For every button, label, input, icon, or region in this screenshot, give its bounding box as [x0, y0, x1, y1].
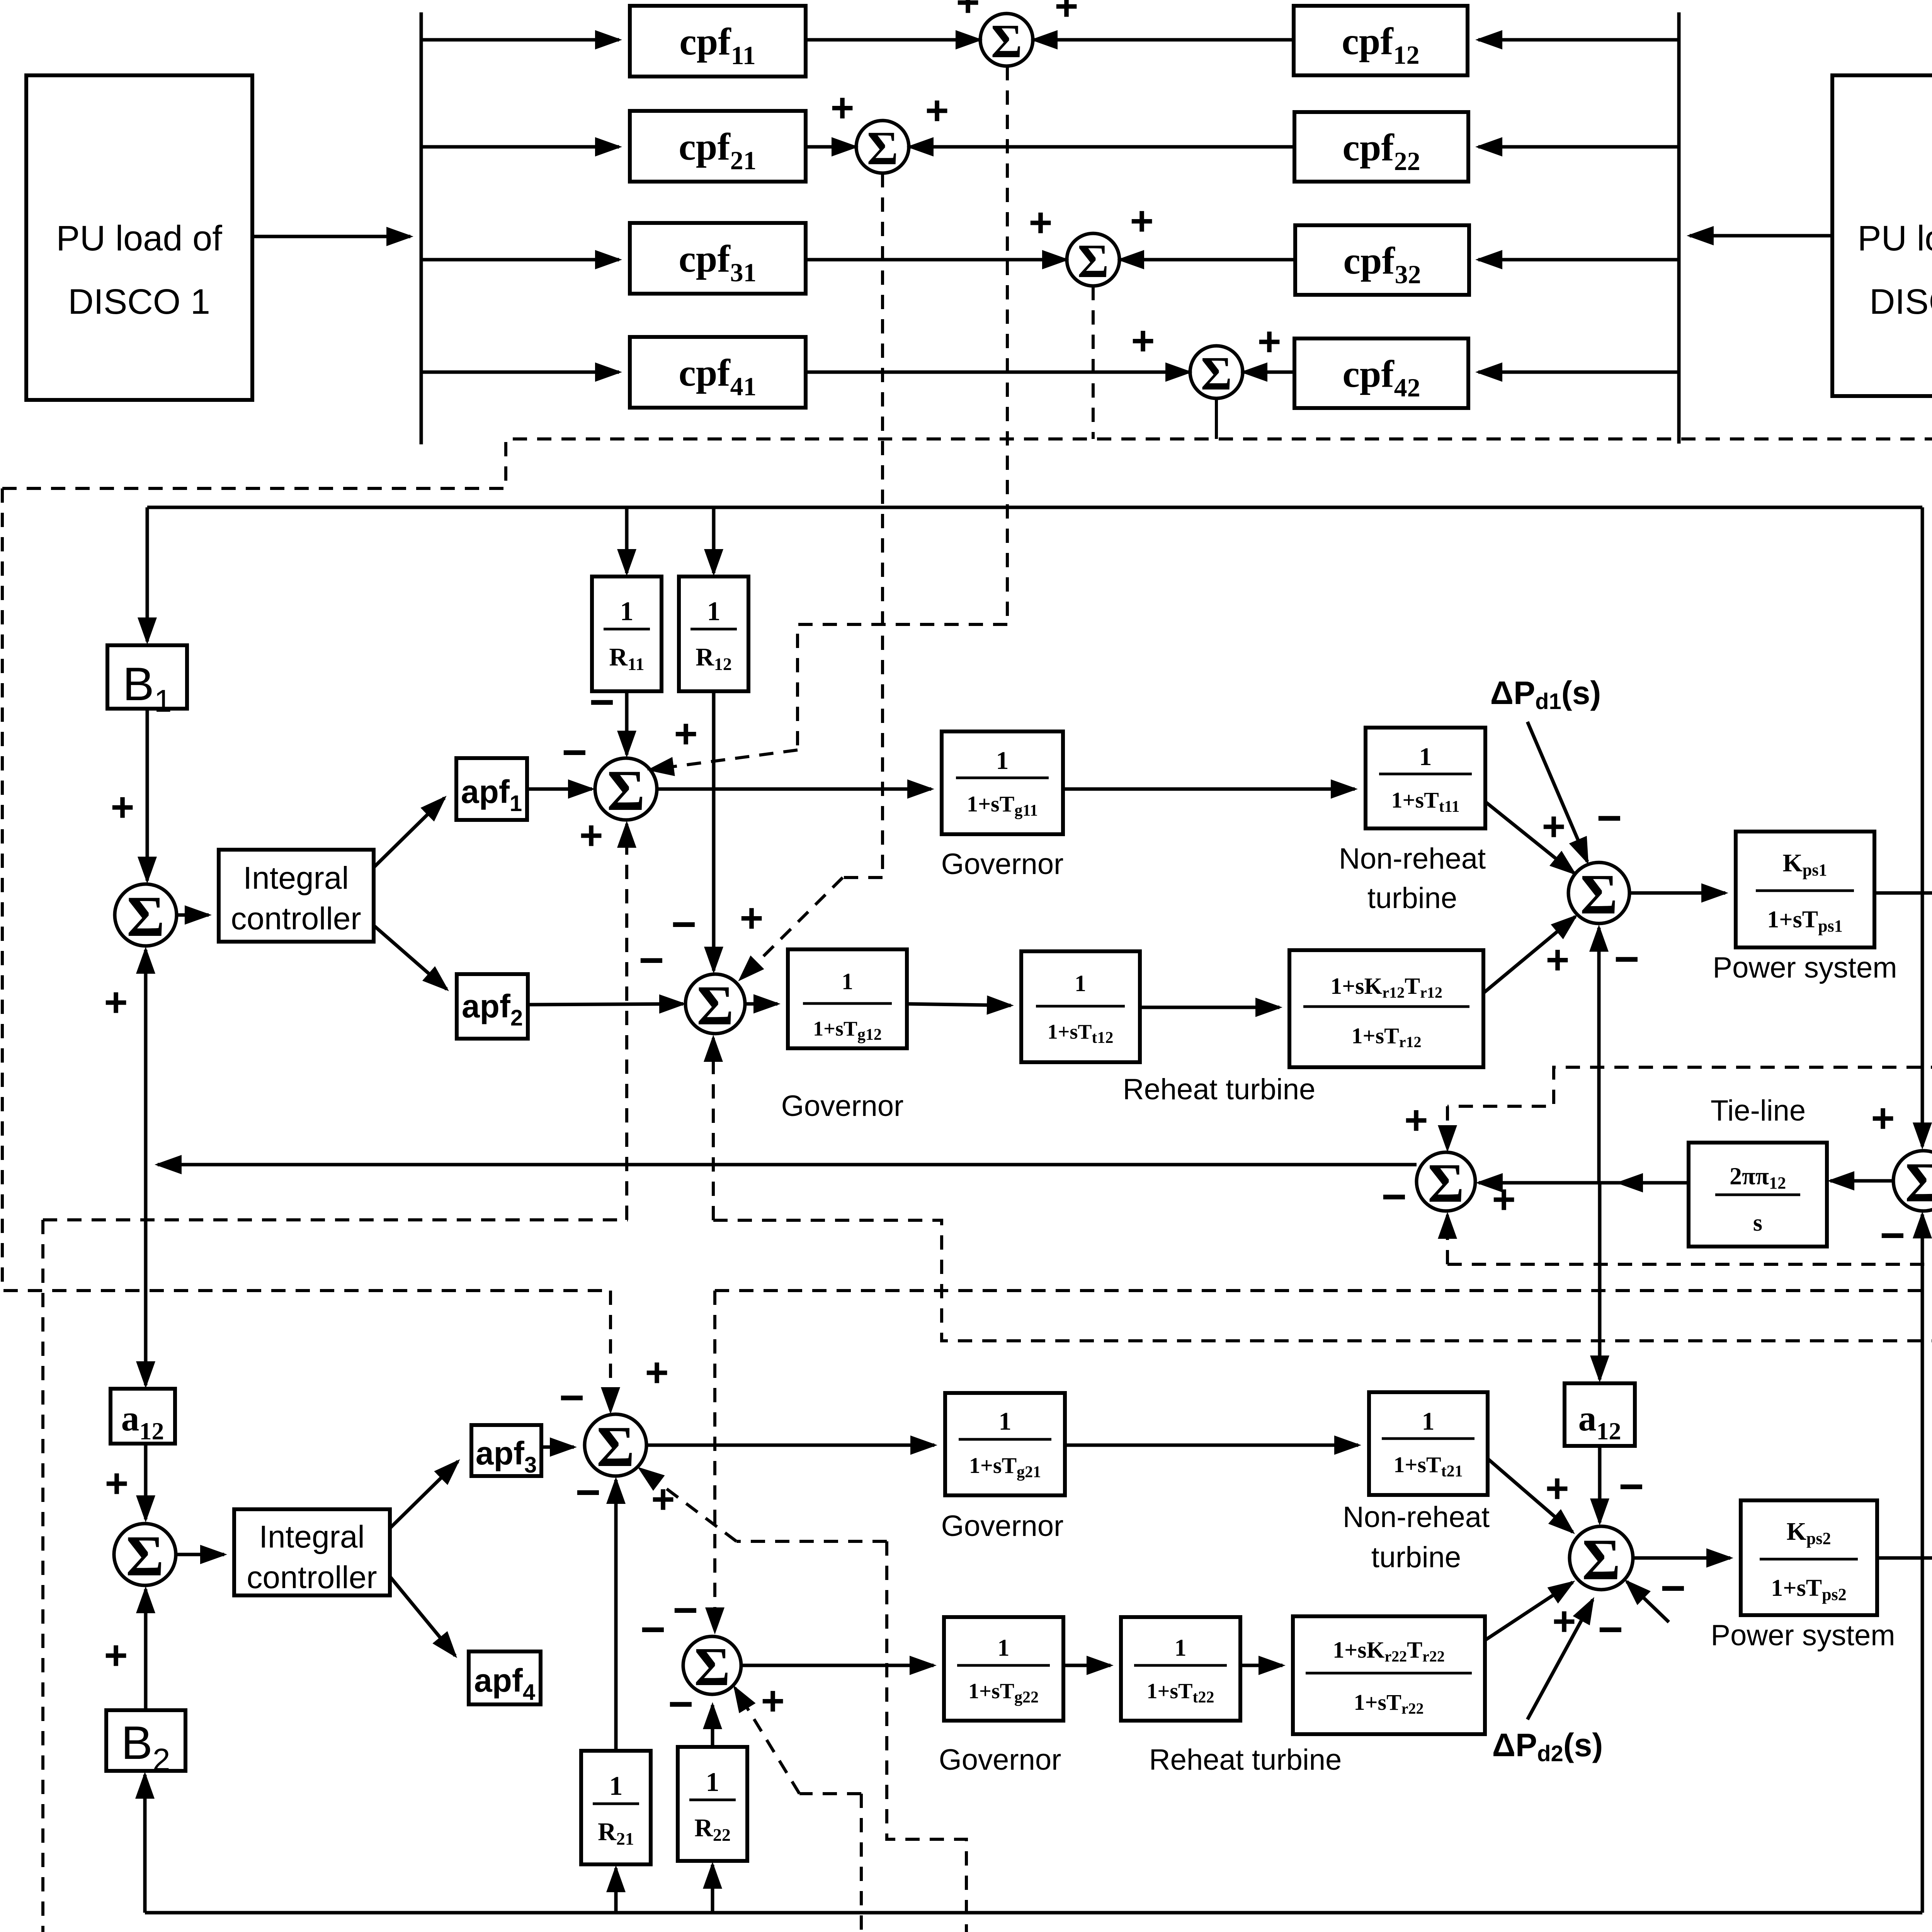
svg-text:Σ: Σ [1580, 863, 1618, 926]
svg-text:1: 1 [1075, 971, 1086, 996]
svg-text:ΔPd1(s): ΔPd1(s) [1490, 675, 1601, 714]
svg-text:1+sTg21: 1+sTg21 [969, 1453, 1041, 1481]
svg-text:cpf11: cpf11 [679, 20, 756, 70]
svg-text:+: + [1492, 1177, 1515, 1222]
svg-text:2ππ12: 2ππ12 [1730, 1162, 1786, 1192]
svg-text:Tie-line: Tie-line [1711, 1094, 1806, 1127]
svg-text:1+sTr22: 1+sTr22 [1354, 1690, 1423, 1717]
svg-text:1+sTg12: 1+sTg12 [813, 1017, 882, 1044]
svg-text:apf4: apf4 [474, 1662, 535, 1705]
svg-text:1: 1 [842, 969, 853, 994]
svg-text:Σ: Σ [697, 974, 733, 1037]
svg-text:1+sTg22: 1+sTg22 [968, 1679, 1039, 1706]
svg-text:+: + [1871, 1096, 1895, 1141]
svg-text:1: 1 [609, 1771, 623, 1801]
svg-text:Reheat turbine: Reheat turbine [1123, 1073, 1316, 1106]
svg-text:Integral: Integral [259, 1519, 365, 1554]
svg-text:cpf41: cpf41 [679, 351, 756, 401]
svg-text:−: − [1619, 1462, 1644, 1510]
svg-text:Σ: Σ [607, 759, 645, 823]
svg-text:1: 1 [707, 597, 721, 626]
svg-text:Non-reheat: Non-reheat [1339, 842, 1486, 875]
svg-text:cpf21: cpf21 [679, 125, 756, 175]
svg-text:apf1: apf1 [461, 774, 522, 816]
svg-text:1: 1 [620, 597, 634, 626]
svg-text:+: + [651, 1477, 675, 1522]
svg-text:1+sTt12: 1+sTt12 [1048, 1020, 1114, 1047]
svg-text:controller: controller [231, 901, 361, 936]
svg-text:Governor: Governor [939, 1743, 1061, 1776]
svg-text:−: − [1598, 1605, 1623, 1653]
svg-text:1: 1 [1419, 743, 1432, 771]
svg-text:1: 1 [999, 1407, 1012, 1435]
svg-text:PU load of: PU load of [1857, 219, 1932, 258]
svg-text:1+sTr12: 1+sTr12 [1351, 1023, 1421, 1051]
svg-text:−: − [562, 728, 587, 776]
svg-text:controller: controller [247, 1560, 377, 1595]
svg-text:cpf12: cpf12 [1342, 20, 1419, 70]
svg-text:−: − [575, 1468, 600, 1516]
svg-text:Σ: Σ [694, 1636, 730, 1697]
svg-text:+: + [1546, 937, 1569, 983]
svg-text:+: + [1404, 1098, 1428, 1143]
svg-text:+: + [104, 980, 128, 1025]
svg-text:apf2: apf2 [462, 988, 523, 1031]
svg-text:Σ: Σ [1201, 347, 1232, 400]
svg-text:−: − [1597, 794, 1622, 842]
svg-text:1+sTt21: 1+sTt21 [1393, 1452, 1463, 1480]
svg-text:Σ: Σ [1582, 1527, 1620, 1592]
svg-text:cpf22: cpf22 [1342, 126, 1420, 176]
svg-text:cpf32: cpf32 [1343, 239, 1421, 289]
svg-text:Non-reheat: Non-reheat [1343, 1501, 1490, 1534]
svg-text:cpf42: cpf42 [1342, 352, 1420, 402]
svg-text:+: + [579, 813, 603, 858]
svg-text:−: − [639, 936, 664, 984]
svg-text:+: + [111, 785, 134, 830]
svg-text:1+sTt11: 1+sTt11 [1391, 787, 1460, 816]
svg-text:R12: R12 [696, 643, 732, 674]
svg-text:Σ: Σ [991, 15, 1022, 68]
svg-text:Kps1: Kps1 [1783, 849, 1827, 879]
svg-text:+: + [105, 1461, 128, 1506]
svg-text:+: + [1029, 200, 1052, 245]
svg-text:1+sTg11: 1+sTg11 [967, 791, 1038, 820]
svg-text:Σ: Σ [126, 1524, 164, 1588]
svg-text:−: − [668, 1680, 693, 1728]
svg-text:Σ: Σ [1905, 1151, 1932, 1214]
svg-text:+: + [1542, 804, 1565, 849]
svg-text:+: + [1545, 1466, 1569, 1511]
svg-text:R11: R11 [609, 643, 644, 674]
svg-text:+: + [925, 88, 949, 133]
svg-text:Kps2: Kps2 [1787, 1517, 1831, 1548]
svg-text:Σ: Σ [867, 122, 898, 175]
svg-text:a12: a12 [121, 1398, 164, 1445]
svg-text:−: − [671, 900, 696, 948]
svg-text:+: + [1131, 318, 1155, 364]
svg-text:1+sTt22: 1+sTt22 [1146, 1679, 1214, 1706]
svg-text:1: 1 [996, 747, 1009, 775]
svg-text:+: + [761, 1679, 784, 1724]
svg-text:+: + [645, 1350, 668, 1395]
svg-text:+: + [740, 896, 763, 941]
svg-text:1: 1 [1175, 1635, 1187, 1661]
svg-text:−: − [589, 678, 614, 726]
svg-text:B2: B2 [121, 1716, 170, 1777]
svg-text:PU load of: PU load of [56, 219, 222, 258]
svg-text:1+sTps1: 1+sTps1 [1767, 906, 1842, 935]
svg-text:Σ: Σ [1077, 235, 1109, 287]
svg-text:1: 1 [1422, 1407, 1435, 1435]
svg-text:Σ: Σ [1428, 1153, 1464, 1214]
svg-text:1: 1 [998, 1635, 1010, 1661]
svg-text:Reheat turbine: Reheat turbine [1149, 1743, 1342, 1776]
svg-text:+: + [1130, 199, 1153, 244]
svg-text:turbine: turbine [1367, 882, 1457, 915]
svg-text:−: − [1614, 935, 1639, 983]
svg-text:s: s [1753, 1210, 1762, 1236]
svg-text:−: − [673, 1586, 698, 1634]
svg-text:Governor: Governor [941, 848, 1064, 881]
svg-text:turbine: turbine [1371, 1541, 1461, 1574]
svg-text:Σ: Σ [597, 1415, 634, 1479]
svg-text:+: + [1257, 319, 1281, 364]
svg-text:−: − [559, 1373, 584, 1422]
svg-text:R22: R22 [694, 1814, 731, 1845]
svg-text:1+sKr22Tr22: 1+sKr22Tr22 [1333, 1637, 1445, 1665]
svg-text:a12: a12 [1578, 1398, 1621, 1445]
svg-text:ΔPd2(s): ΔPd2(s) [1492, 1727, 1603, 1766]
svg-text:1+sKr12Tr12: 1+sKr12Tr12 [1330, 973, 1442, 1001]
svg-text:R21: R21 [598, 1818, 634, 1849]
svg-text:Power system: Power system [1711, 1619, 1895, 1652]
svg-text:1+sTps2: 1+sTps2 [1771, 1575, 1846, 1604]
svg-text:Governor: Governor [941, 1510, 1064, 1543]
svg-text:DISCO 1: DISCO 1 [68, 282, 210, 321]
svg-text:+: + [830, 85, 854, 131]
svg-text:Σ: Σ [127, 884, 165, 949]
svg-text:apf3: apf3 [476, 1435, 537, 1478]
svg-text:1: 1 [706, 1767, 719, 1797]
svg-text:−: − [1381, 1172, 1406, 1221]
svg-text:Governor: Governor [781, 1090, 904, 1122]
svg-text:Integral: Integral [243, 861, 349, 896]
svg-text:Power system: Power system [1713, 951, 1897, 984]
svg-text:−: − [640, 1605, 665, 1653]
svg-text:+: + [1054, 0, 1078, 29]
svg-text:DISCO 2: DISCO 2 [1869, 282, 1932, 321]
svg-text:−: − [1880, 1211, 1905, 1259]
svg-text:+: + [104, 1633, 128, 1678]
svg-text:cpf31: cpf31 [679, 237, 756, 287]
svg-text:+: + [956, 0, 980, 25]
svg-text:+: + [674, 711, 697, 757]
svg-text:−: − [1660, 1564, 1685, 1612]
